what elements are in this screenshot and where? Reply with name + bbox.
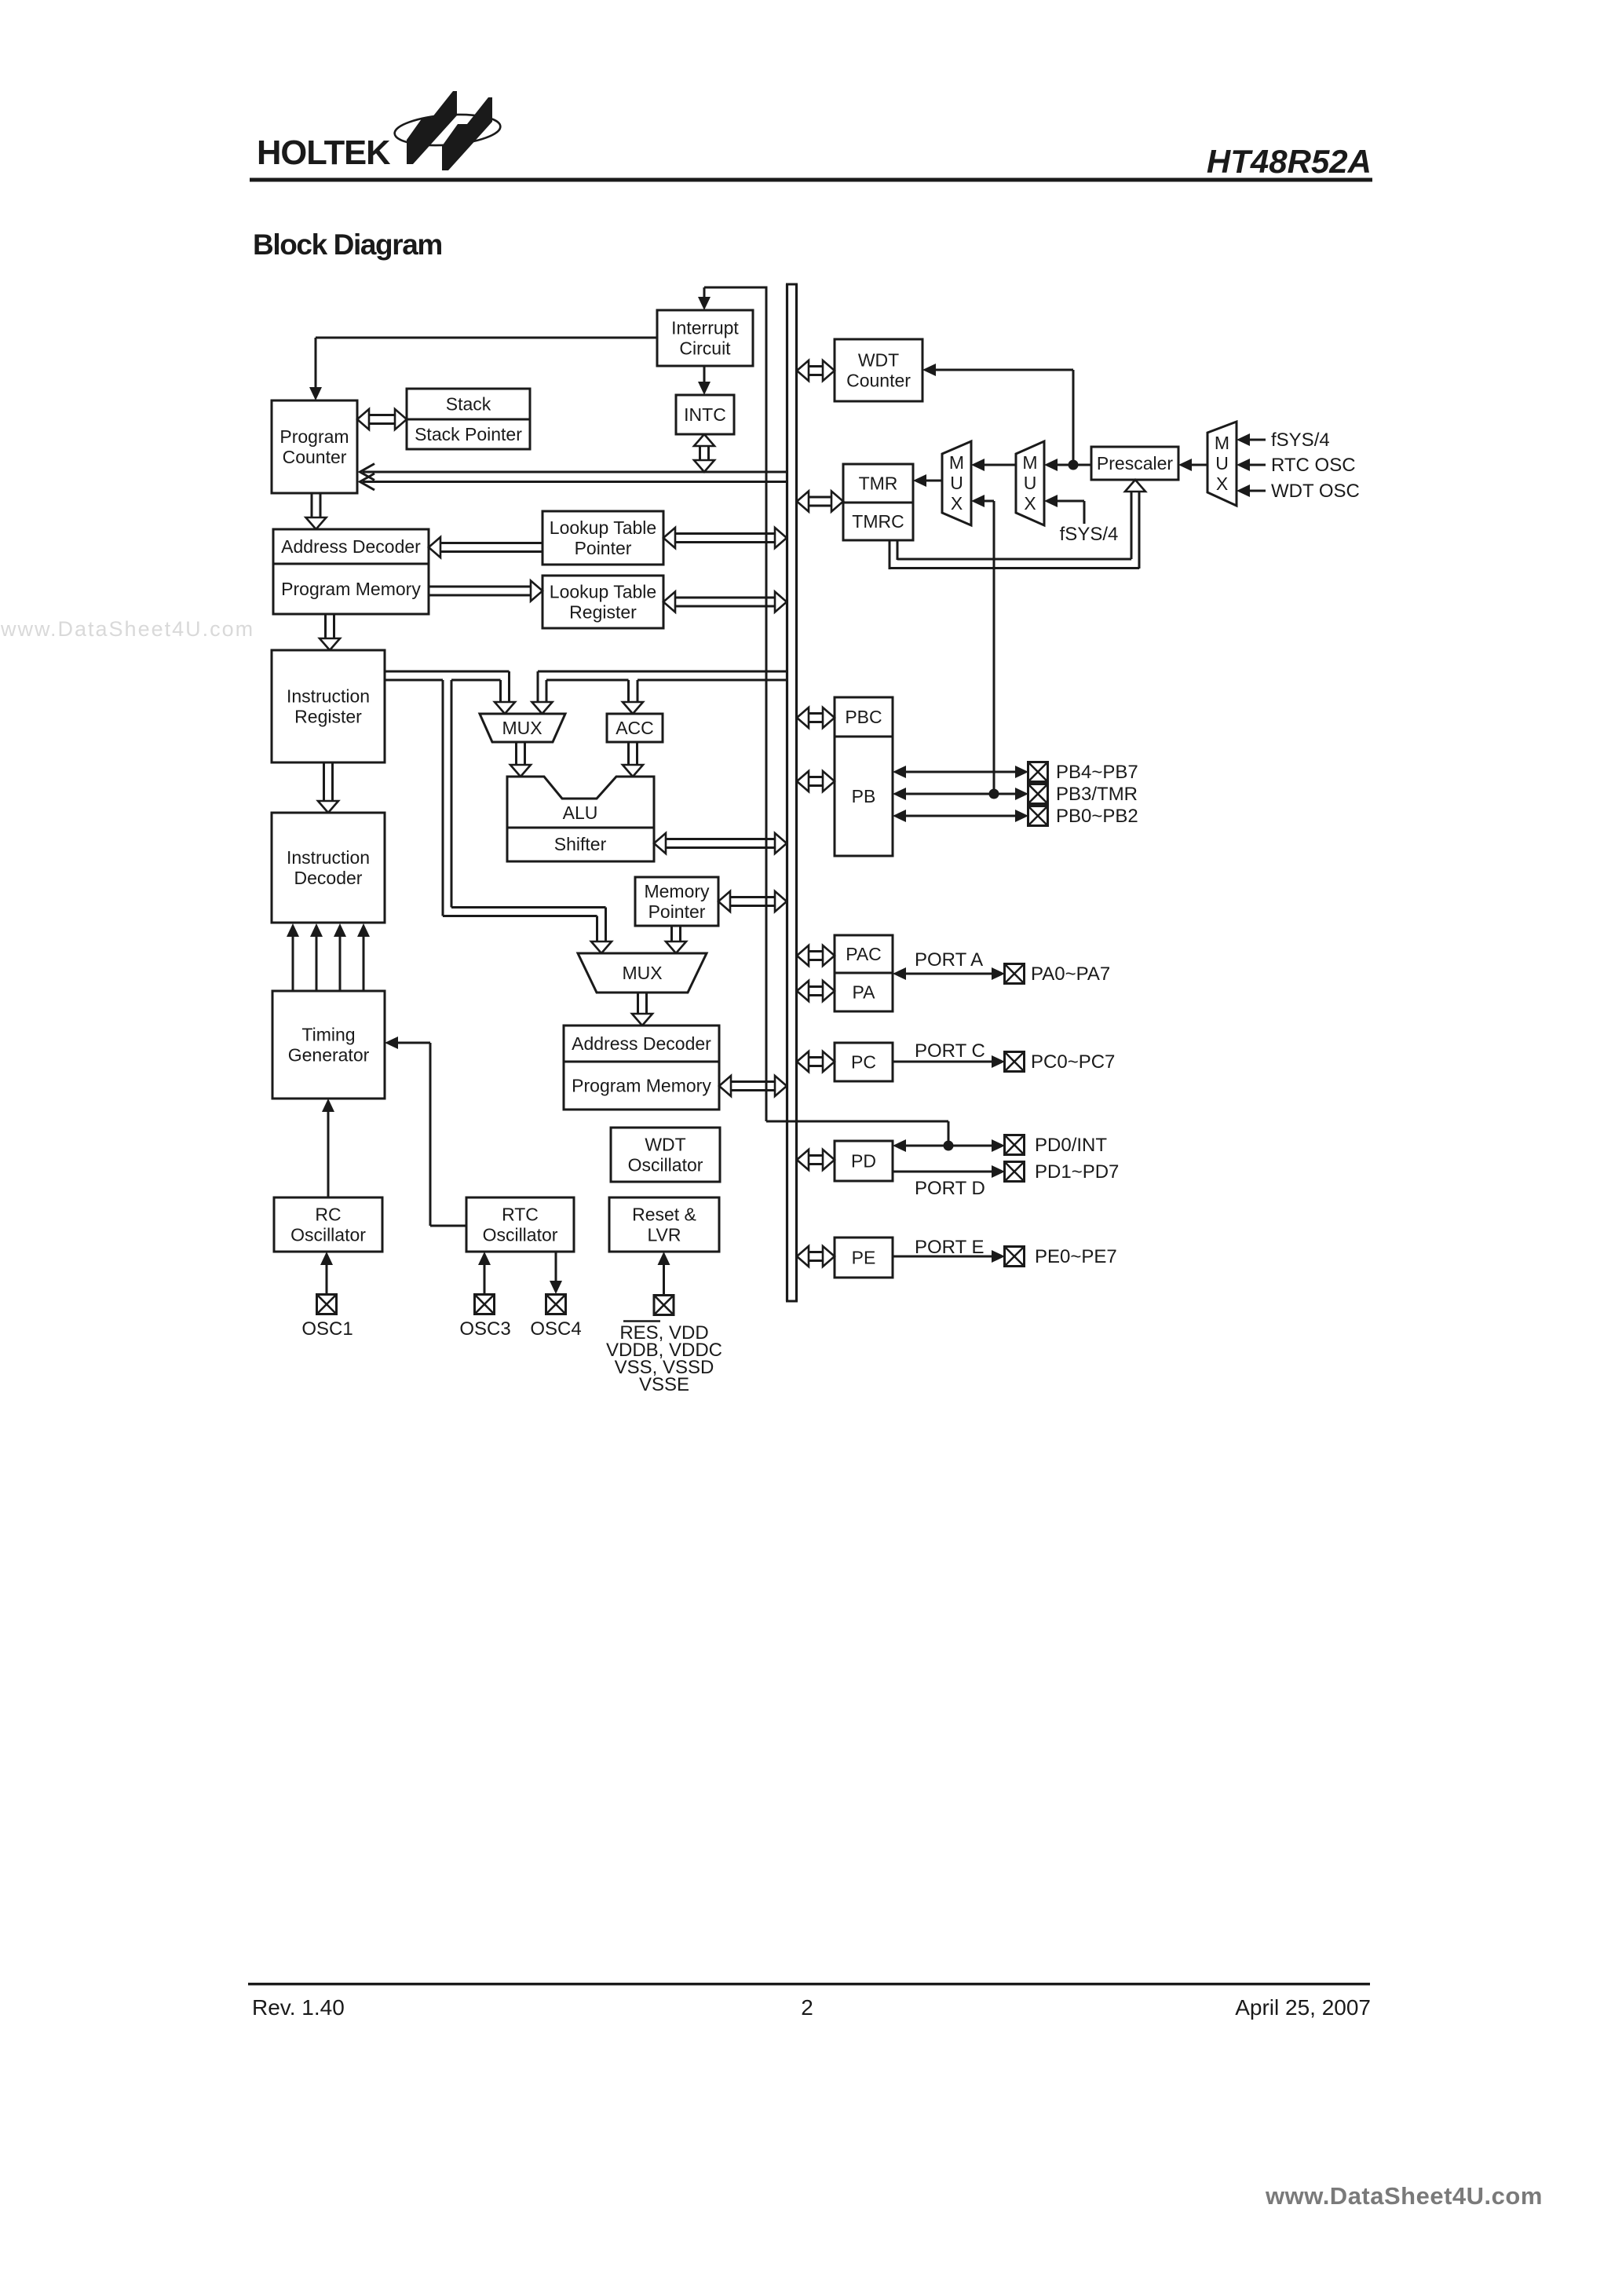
mux MUX (operand) (480, 714, 565, 742)
block WDT Oscillator (611, 1128, 720, 1182)
register PE (835, 1238, 893, 1278)
internal line 1 into Program Counter (363, 471, 787, 473)
svg-text:PB: PB (852, 786, 876, 806)
mux MUX3 (clock source) (1207, 422, 1237, 506)
register PD (835, 1141, 893, 1181)
arrow OSC3 to RTC Oscillator (484, 1265, 486, 1294)
pin OSC1 (317, 1295, 337, 1314)
svg-text:Pointer: Pointer (648, 901, 706, 922)
pin PE0~PE7 (1005, 1247, 1025, 1267)
svg-text:WDT OSC: WDT OSC (1271, 481, 1360, 502)
block INTC (676, 395, 734, 434)
block Address Decoder / Program Memory (upper) (273, 529, 429, 614)
hollow arrow TMRC to Prescaler (889, 540, 891, 569)
svg-text:Register: Register (569, 602, 637, 623)
mux MUX (data memory address) (578, 953, 707, 993)
svg-text:PC: PC (851, 1052, 876, 1073)
hollow wire: Instruction Register to MUX and address MUX (385, 671, 510, 673)
hollow arrow address MUX to Address Decoder (637, 993, 639, 1014)
registers TMR / TMRC (843, 464, 913, 540)
hollow arrow bus to PBC (809, 712, 823, 715)
arrow MUX1 to TMR (926, 480, 942, 482)
svg-text:Oscillator: Oscillator (628, 1155, 703, 1175)
svg-text:PC0~PC7: PC0~PC7 (1031, 1051, 1115, 1073)
svg-text:HT48R52A: HT48R52A (1207, 143, 1372, 180)
registers Stack / Stack Pointer (407, 389, 530, 449)
svg-text:OSC4: OSC4 (530, 1318, 581, 1340)
arrow Prescaler to MUX2 (1058, 464, 1091, 466)
svg-text:PORT C: PORT C (915, 1040, 985, 1062)
wire: Interrupt Circuit to INTC (703, 366, 706, 382)
hollow arrow Program Memory to Instruction Register (324, 614, 327, 638)
pin OSC4 (546, 1295, 566, 1314)
wire PB0~PB2 (906, 815, 1015, 817)
svg-text:WDT: WDT (645, 1135, 685, 1155)
hollow arrow bus to TMR (809, 496, 831, 499)
arrow into Program Counter top (315, 361, 317, 387)
header rule (250, 178, 1372, 182)
svg-text:U: U (1024, 473, 1037, 493)
svg-text:PB4~PB7: PB4~PB7 (1056, 762, 1138, 783)
registers PAC / PA (835, 935, 893, 1011)
hollow arrow MUX to ALU (515, 742, 517, 765)
svg-text:Instruction: Instruction (287, 686, 370, 707)
svg-text:PA: PA (853, 982, 876, 1003)
hollow arrow Lookup Table Pointer to Address Decoder (440, 542, 542, 544)
mux MUX2 (prescaler source) (1016, 441, 1044, 525)
block Timing Generator (272, 991, 385, 1099)
hollow arrow data memory to bus (731, 1080, 775, 1083)
wire RTC Oscillator to Timing Generator (398, 1042, 430, 1044)
svg-text:Address Decoder: Address Decoder (572, 1033, 711, 1054)
wire PB3 external timer input to MUX1 (984, 500, 994, 503)
svg-text:PB0~PB2: PB0~PB2 (1056, 806, 1138, 827)
arrow RES to Reset & LVR (663, 1265, 665, 1295)
svg-text:Pointer: Pointer (575, 538, 632, 558)
svg-text:Memory: Memory (644, 881, 710, 901)
HOLTEK logo ellipse (393, 112, 501, 148)
wire PB4~PB7 (906, 771, 1015, 773)
svg-text:RTC OSC: RTC OSC (1271, 455, 1356, 476)
svg-text:ACC: ACC (616, 718, 654, 738)
svg-text:PA0~PA7: PA0~PA7 (1031, 963, 1110, 985)
HOLTEK logo lightning bolt 1 (407, 91, 457, 164)
svg-text:fSYS/4: fSYS/4 (1060, 524, 1119, 545)
svg-text:www.DataSheet4U.com: www.DataSheet4U.com (1265, 2182, 1543, 2210)
wire PD1~PD7 (893, 1171, 992, 1173)
arrow into Interrupt Circuit top (703, 287, 706, 297)
svg-text:Address Decoder: Address Decoder (281, 536, 421, 557)
hollow arrow Lookup Table Register to bus (675, 597, 775, 599)
hollow arrow bus to PC (809, 1056, 823, 1058)
wire prescaler output to WDT Counter (936, 369, 1073, 371)
svg-text:Decoder: Decoder (294, 868, 363, 888)
wire: Interrupt Circuit to Program Counter (316, 337, 657, 339)
svg-text:PD1~PD7: PD1~PD7 (1035, 1161, 1119, 1183)
svg-text:Stack Pointer: Stack Pointer (415, 424, 522, 444)
junction dot prescaler output (1069, 460, 1079, 470)
arrow MUX2 to MUX1 (985, 464, 1016, 466)
svg-text:Oscillator: Oscillator (290, 1225, 366, 1245)
wire PORT A (906, 973, 992, 975)
hollow arrow Program Counter to Stack (369, 414, 395, 416)
svg-text:Lookup Table: Lookup Table (550, 582, 656, 602)
hollow arrow bus to PA (809, 985, 823, 988)
junction dot PB3/TMR (989, 789, 999, 799)
svg-text:Generator: Generator (288, 1045, 370, 1066)
svg-text:April 25, 2007: April 25, 2007 (1235, 1995, 1371, 2020)
block RC Oscillator (274, 1197, 382, 1252)
register Lookup Table Pointer (542, 511, 663, 565)
svg-text:WDT: WDT (858, 350, 899, 371)
pin PD1~PD7 (1005, 1162, 1025, 1182)
svg-text:Circuit: Circuit (679, 338, 731, 359)
register PC (835, 1043, 893, 1081)
svg-text:M: M (949, 452, 964, 473)
hollow arrow Shifter to bus (666, 838, 775, 840)
svg-text:Counter: Counter (283, 447, 347, 467)
svg-text:MUX: MUX (622, 963, 662, 983)
svg-text:M: M (1215, 433, 1229, 453)
wire fSYS/4 input to MUX3 (1250, 439, 1266, 441)
mux MUX1 (timer source) (942, 441, 971, 525)
svg-text:Rev. 1.40: Rev. 1.40 (252, 1995, 345, 2020)
block Interrupt Circuit (657, 310, 753, 366)
svg-text:PD: PD (851, 1151, 876, 1172)
wire WDT OSC input to MUX3 (1250, 490, 1266, 492)
arrow RC Oscillator to Timing Generator (327, 1112, 330, 1197)
svg-text:PORT D: PORT D (915, 1178, 985, 1199)
svg-text:ALU: ALU (563, 803, 598, 823)
svg-text:Register: Register (294, 707, 362, 727)
svg-text:PBC: PBC (845, 707, 882, 727)
hollow arrow ACC to ALU (627, 742, 630, 765)
arrow OSC1 to RC Oscillator (326, 1265, 328, 1294)
block ALU / Shifter (507, 777, 654, 861)
hollow arrow bus to WDT Counter (809, 365, 823, 367)
svg-text:Shifter: Shifter (554, 834, 607, 854)
svg-text:PORT E: PORT E (915, 1237, 984, 1258)
svg-text:PE: PE (852, 1248, 876, 1268)
wire fSYS/4 to MUX2 (1058, 500, 1084, 503)
svg-text:Timing: Timing (301, 1025, 355, 1045)
hollow arrow Program Counter to Address Decoder (311, 493, 313, 517)
block WDT Counter (835, 339, 922, 401)
hollow arrow bus to PB (809, 776, 823, 778)
svg-text:M: M (1022, 452, 1037, 473)
wire RTC OSC input to MUX3 (1250, 464, 1266, 466)
svg-text:HOLTEK: HOLTEK (257, 134, 391, 172)
block Program Counter (272, 400, 357, 493)
pin RES (654, 1296, 674, 1315)
hollow arrow Program Memory to Lookup Table Register (429, 586, 531, 588)
svg-text:Block Diagram: Block Diagram (253, 229, 442, 261)
register Memory Pointer (635, 877, 718, 926)
svg-text:INTC: INTC (684, 404, 726, 425)
pin PB0~PB2 (1028, 806, 1048, 826)
register ACC (607, 714, 663, 742)
hollow arrow Instruction Register to Instruction Decoder (323, 762, 325, 801)
block Reset & LVR (609, 1197, 719, 1252)
svg-text:Program Memory: Program Memory (572, 1076, 711, 1096)
junction dot on PD0/INT line (944, 1141, 954, 1151)
svg-text:Program Memory: Program Memory (281, 579, 421, 599)
block Prescaler (1091, 447, 1178, 480)
hollow arrow Lookup Table Pointer to bus (675, 532, 775, 535)
registers PBC / PB (835, 697, 893, 856)
svg-text:PB3/TMR: PB3/TMR (1056, 784, 1138, 805)
arrow MUX3 to Prescaler (1192, 464, 1207, 466)
svg-text:U: U (1215, 453, 1229, 473)
arrow RTC Oscillator to OSC4 (555, 1252, 557, 1281)
svg-text:X: X (951, 493, 963, 514)
wire PORT E (893, 1256, 992, 1258)
pin PB3/TMR (1028, 784, 1048, 804)
HOLTEK logo lightning bolt 2 (442, 97, 492, 170)
svg-text:X: X (1216, 473, 1228, 494)
arrows Instruction Decoder from Timing Generator (292, 937, 294, 991)
svg-text:PD0/INT: PD0/INT (1035, 1135, 1107, 1156)
svg-text:OSC1: OSC1 (301, 1318, 353, 1340)
footer rule (248, 1983, 1370, 1985)
svg-text:TMR: TMR (859, 473, 898, 494)
register Lookup Table Register (542, 576, 663, 628)
svg-text:Instruction: Instruction (287, 847, 370, 868)
wire PB3/TMR (906, 793, 1015, 795)
hollow arrow bus to PD (809, 1154, 823, 1157)
svg-text:LVR: LVR (647, 1225, 681, 1245)
hollow arrow Memory Pointer to address MUX (670, 926, 673, 941)
svg-text:fSYS/4: fSYS/4 (1271, 430, 1330, 451)
svg-text:VSSE: VSSE (639, 1374, 689, 1395)
pin PC0~PC7 (1005, 1052, 1025, 1072)
svg-text:X: X (1024, 493, 1036, 514)
hollow arrow Memory Pointer to bus (730, 896, 775, 898)
data bus (double vertical line) (786, 284, 788, 1301)
svg-text:2: 2 (801, 1995, 813, 2020)
internal line 2 into Program Counter (363, 481, 787, 483)
svg-text:PORT A: PORT A (915, 949, 983, 971)
wire PD0/INT (906, 1145, 992, 1147)
block Address Decoder / Program Memory (data) (564, 1026, 719, 1110)
hollow wire: data bus to MUX and ACC (538, 671, 787, 673)
block RTC Oscillator (466, 1197, 574, 1252)
svg-text:RTC: RTC (502, 1205, 539, 1225)
svg-text:Interrupt: Interrupt (671, 318, 739, 338)
svg-text:PAC: PAC (846, 944, 882, 964)
svg-text:Stack: Stack (446, 394, 491, 415)
hollow arrow bus to PAC (809, 950, 823, 952)
svg-text:Oscillator: Oscillator (483, 1225, 558, 1245)
hollow arrow bus to PE (809, 1251, 823, 1253)
svg-text:MUX: MUX (502, 718, 542, 738)
svg-text:OSC3: OSC3 (459, 1318, 510, 1340)
wire PORT C (893, 1061, 992, 1063)
hollow arrow INTC to internal line (699, 446, 701, 460)
pin PD0/INT (1005, 1135, 1025, 1155)
pin PA0~PA7 (1005, 964, 1025, 984)
svg-text:www.DataSheet4U.com: www.DataSheet4U.com (0, 617, 254, 641)
svg-text:Prescaler: Prescaler (1097, 453, 1173, 473)
svg-text:PE0~PE7: PE0~PE7 (1035, 1246, 1117, 1267)
svg-text:Reset &: Reset & (632, 1205, 696, 1225)
block Instruction Register (272, 650, 385, 762)
pin PB4~PB7 (1028, 762, 1048, 782)
svg-text:Program: Program (279, 426, 349, 447)
wire top: PD0/INT net up to Interrupt Circuit (704, 287, 766, 289)
svg-text:TMRC: TMRC (852, 511, 904, 532)
pin OSC3 (475, 1295, 495, 1314)
block Instruction Decoder (272, 813, 385, 923)
svg-text:RC: RC (315, 1205, 341, 1225)
svg-text:Counter: Counter (846, 371, 911, 391)
svg-text:Lookup Table: Lookup Table (550, 517, 656, 538)
svg-text:U: U (950, 473, 963, 493)
